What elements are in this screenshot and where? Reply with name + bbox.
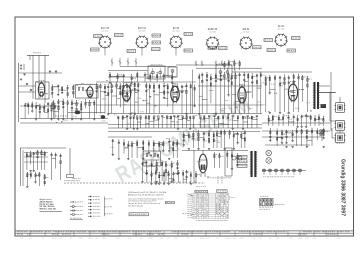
svg-text:ECH 81: ECH 81 <box>138 28 147 30</box>
svg-text:EABC 80: EABC 80 <box>208 28 218 31</box>
svg-text:allen Bereichstasten: allen Bereichstasten <box>128 204 143 207</box>
svg-text:EL 84: EL 84 <box>278 26 285 28</box>
svg-text:Grundig 3366 3087 3097: Grundig 3366 3087 3097 <box>340 159 346 216</box>
svg-text:ECC 85: ECC 85 <box>101 28 110 30</box>
svg-text:AM-Bereich Tast-ZF 460 kHz: AM-Bereich Tast-ZF 460 kHz 510...1620 kH… <box>128 193 164 196</box>
svg-text:EF 89: EF 89 <box>173 28 180 30</box>
svg-text:MW 510...1620 kHz: MW 510...1620 kHz <box>40 209 57 211</box>
svg-text:EM 84: EM 84 <box>243 29 250 31</box>
